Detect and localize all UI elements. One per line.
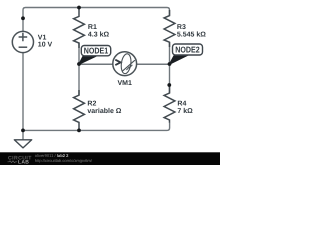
svg-text:NODE1: NODE1	[84, 46, 109, 56]
node NODE1 callout	[79, 46, 111, 65]
svg-text:http://circuitlab.com/c/zmjpv6: http://circuitlab.com/c/zmjpv6m/	[35, 158, 93, 163]
svg-text:VM1: VM1	[117, 80, 132, 87]
label R2 value	[87, 101, 121, 115]
footer logo CIRCUIT LAB	[8, 155, 33, 165]
resistor R4	[164, 85, 175, 123]
svg-text:5.545 kΩ: 5.545 kΩ	[177, 31, 206, 39]
wire middle from NODE1 to NODE2 through VM1	[79, 63, 170, 65]
svg-text:4.3 kΩ: 4.3 kΩ	[88, 31, 110, 39]
resistor R2	[74, 90, 85, 130]
resistor R1	[74, 8, 85, 49]
voltage source V1	[12, 31, 33, 52]
junction dot R2 bottom on rail	[77, 129, 81, 133]
footer bar	[0, 152, 220, 165]
node NODE2 callout	[169, 44, 202, 64]
label R1 value	[88, 24, 110, 39]
voltmeter VM1	[113, 52, 137, 76]
svg-text:10 V: 10 V	[38, 42, 53, 49]
svg-text:LAB: LAB	[18, 160, 29, 165]
wire bottom rail	[23, 123, 170, 131]
wire right branch R3 bottom through NODE2 to R4	[169, 42, 171, 93]
label R3 value	[177, 24, 206, 39]
wire V1 bottom to ground rail	[22, 53, 24, 131]
junction dot NODE2	[168, 62, 172, 66]
ground	[14, 140, 31, 148]
resistor R3	[164, 10, 175, 47]
wire V1 top lead	[22, 18, 24, 31]
wire ground stub	[22, 130, 24, 139]
svg-text:R2: R2	[87, 101, 96, 108]
svg-text:7 kΩ: 7 kΩ	[177, 107, 193, 115]
svg-text:R4: R4	[177, 101, 186, 108]
junction dot R4 top terminal	[167, 83, 171, 87]
wire left branch R1 bottom to R2 top	[78, 43, 80, 96]
svg-text:R3: R3	[177, 24, 186, 31]
junction dot bottom left	[21, 129, 25, 133]
label V1 value	[38, 35, 53, 49]
svg-text:V1: V1	[38, 35, 47, 42]
junction dot V1 plus terminal	[21, 16, 25, 20]
label R4 value	[177, 101, 193, 116]
wire top rail	[23, 8, 170, 19]
junction dot R1 top on rail	[77, 6, 81, 10]
svg-text:variable Ω: variable Ω	[87, 107, 121, 115]
svg-text:NODE2: NODE2	[175, 45, 200, 55]
svg-text:R1: R1	[88, 24, 97, 31]
junction dot NODE1	[77, 62, 81, 66]
